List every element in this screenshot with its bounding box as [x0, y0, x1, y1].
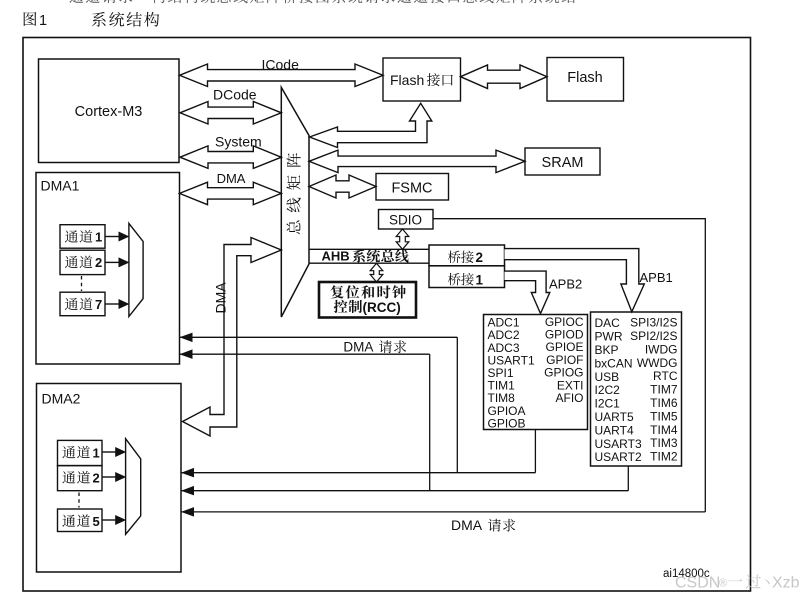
svg-text:7: 7 — [95, 297, 102, 312]
svg-text:TIM5: TIM5 — [650, 409, 678, 423]
svg-text:AFIO: AFIO — [555, 391, 583, 405]
svg-text:ICode: ICode — [262, 57, 300, 73]
svg-text:2: 2 — [95, 255, 102, 270]
svg-text:FSMC: FSMC — [391, 181, 432, 197]
svg-text:Flash: Flash — [567, 70, 602, 86]
svg-text:BKP: BKP — [595, 343, 619, 357]
svg-text:WWDG: WWDG — [637, 356, 678, 370]
svg-text:®: ® — [719, 578, 727, 590]
svg-text:CSDN: CSDN — [675, 575, 720, 592]
svg-text:TIM7: TIM7 — [650, 383, 678, 397]
svg-text:DMA: DMA — [213, 282, 229, 314]
svg-text:5: 5 — [93, 514, 100, 529]
svg-text:IWDG: IWDG — [645, 342, 678, 356]
svg-text:RTC: RTC — [653, 369, 678, 383]
svg-text:DAC: DAC — [595, 316, 621, 330]
svg-text:TIM2: TIM2 — [650, 450, 678, 464]
svg-text:DCode: DCode — [213, 86, 257, 102]
svg-text:System: System — [215, 134, 262, 150]
svg-text:TIM6: TIM6 — [650, 396, 678, 410]
svg-text:UART5: UART5 — [595, 410, 634, 424]
svg-text:1: 1 — [95, 230, 102, 245]
svg-text:APB2: APB2 — [549, 277, 582, 292]
svg-text:PWR: PWR — [595, 330, 623, 344]
svg-text:Xzb: Xzb — [772, 575, 800, 592]
svg-text:DMA2: DMA2 — [42, 391, 81, 407]
svg-text:USART3: USART3 — [595, 437, 642, 451]
svg-text:UART4: UART4 — [595, 423, 634, 437]
svg-text:TIM4: TIM4 — [650, 423, 678, 437]
svg-text:SDIO: SDIO — [389, 213, 422, 228]
svg-text:SPI3/I2S: SPI3/I2S — [630, 316, 677, 330]
svg-text:TIM3: TIM3 — [650, 436, 678, 450]
svg-text:SRAM: SRAM — [542, 155, 584, 171]
svg-text:I2C2: I2C2 — [595, 383, 621, 397]
svg-text:Cortex-M3: Cortex-M3 — [75, 104, 143, 120]
svg-text:I2C1: I2C1 — [595, 397, 621, 411]
svg-text:AHB: AHB — [322, 249, 350, 264]
svg-text:1: 1 — [39, 13, 47, 29]
svg-text:1: 1 — [476, 272, 484, 287]
svg-text:USART2: USART2 — [595, 450, 642, 464]
svg-text:DMA: DMA — [217, 171, 246, 186]
svg-text:1: 1 — [93, 445, 100, 460]
svg-text:DMA: DMA — [451, 517, 483, 533]
svg-text:(RCC): (RCC) — [363, 300, 401, 315]
svg-text:DMA: DMA — [343, 340, 373, 355]
svg-text:bxCAN: bxCAN — [595, 356, 633, 370]
svg-text:SPI2/I2S: SPI2/I2S — [630, 329, 677, 343]
svg-text:USB: USB — [595, 370, 620, 384]
svg-text:Flash: Flash — [390, 72, 424, 88]
svg-text:DMA1: DMA1 — [41, 178, 80, 194]
svg-text:2: 2 — [476, 250, 484, 265]
svg-text:2: 2 — [93, 471, 100, 486]
svg-text:APB1: APB1 — [640, 270, 673, 285]
svg-text:GPIOB: GPIOB — [488, 416, 526, 430]
